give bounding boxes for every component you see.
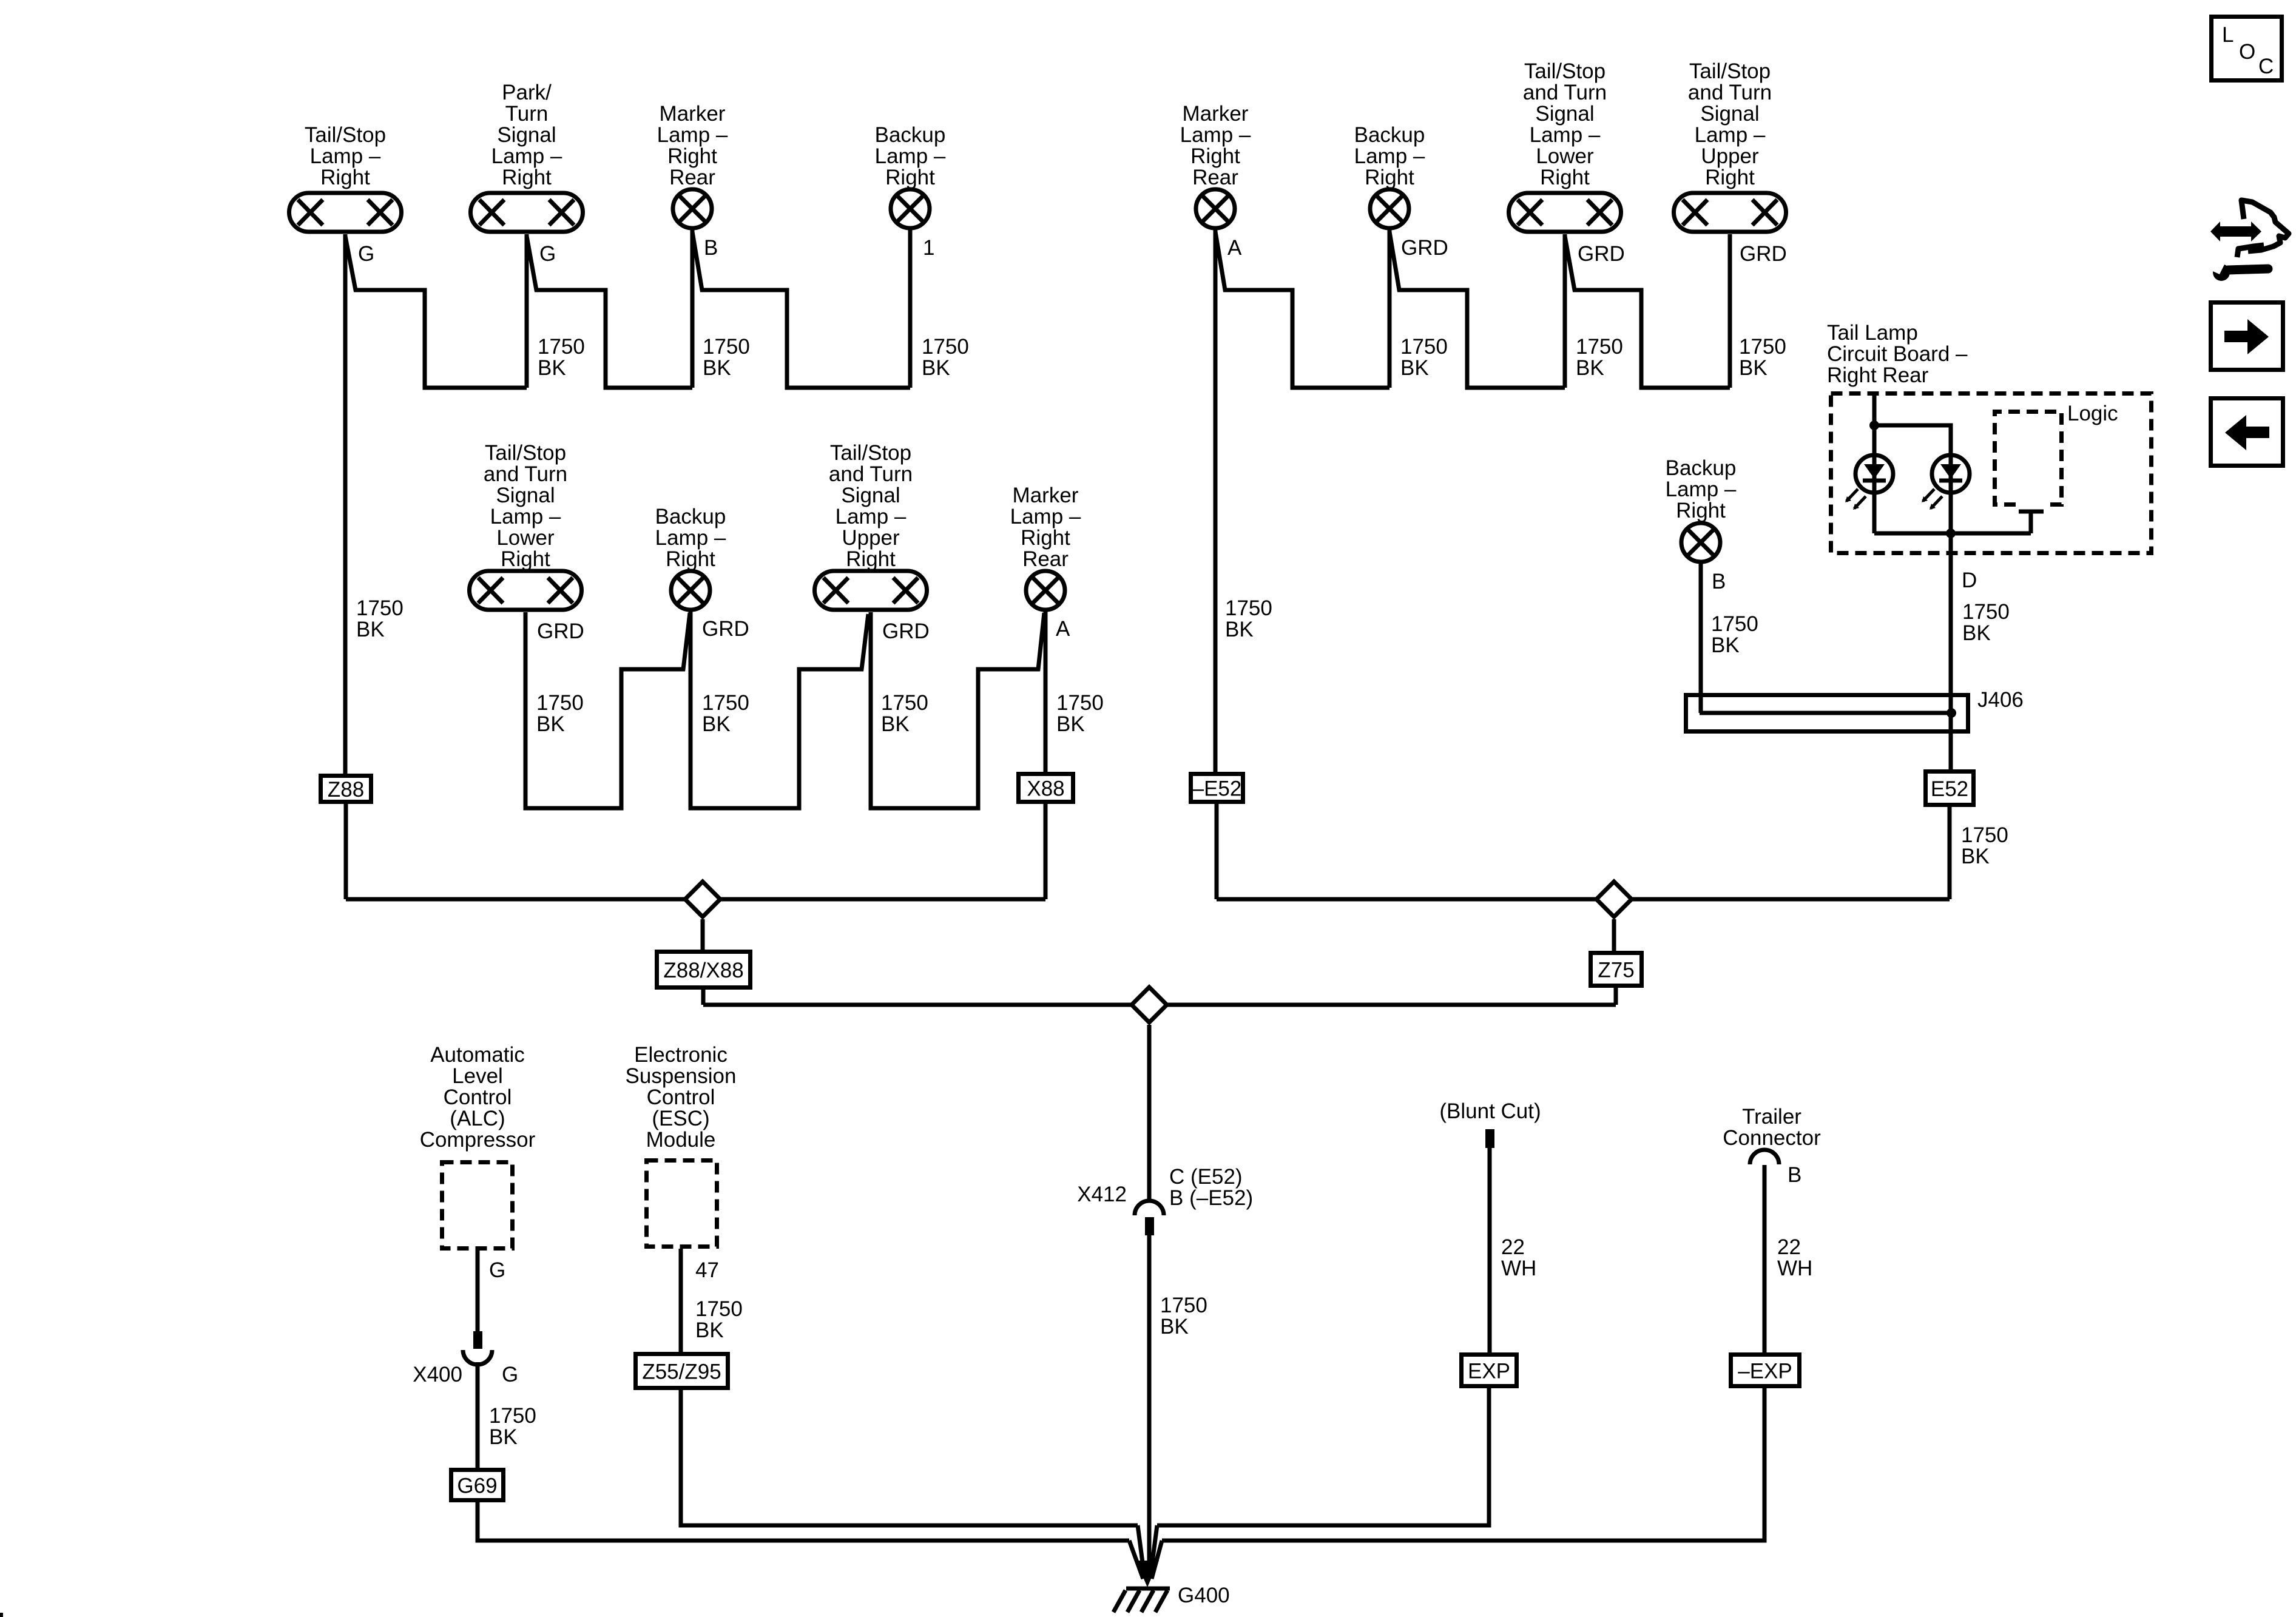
svg-text:BK: BK	[1739, 356, 1768, 380]
wire: feed into circuit board down to LED bus	[1872, 391, 1877, 533]
splice diamond on common bus	[1132, 987, 1167, 1022]
svg-text:1750: 1750	[1225, 596, 1272, 620]
svg-text:BK: BK	[1961, 845, 1990, 868]
wire: -E52 down to right bus	[1215, 804, 1219, 899]
wire: Marker lamp pin B vertical	[690, 230, 695, 388]
wire: bus -E52 to E52	[1217, 897, 1950, 902]
svg-text:1750: 1750	[489, 1404, 536, 1428]
blunt cut terminal	[1485, 1129, 1494, 1148]
svg-text:1750: 1750	[1056, 691, 1104, 715]
svg-text:D: D	[1962, 569, 1977, 592]
svg-text:O: O	[2239, 40, 2255, 64]
svg-text:X412: X412	[1077, 1183, 1127, 1206]
svg-text:1750: 1750	[1962, 600, 2010, 624]
svg-text:L: L	[2222, 23, 2234, 47]
svg-text:C (E52): C (E52)	[1169, 1165, 1243, 1189]
svg-text:BK: BK	[1225, 618, 1254, 641]
wire: branch from Marker lamp to Backup lamp wire	[692, 232, 910, 388]
wire: Z75 down to common bus	[1614, 988, 1618, 1005]
wire: branch from Marker lamp to Backup lamp wire (right group)	[1215, 232, 1389, 388]
svg-text:BK: BK	[1056, 712, 1085, 736]
wire: Backup lamp GRD vertical	[1388, 230, 1392, 388]
svg-text:BK: BK	[881, 712, 910, 736]
svg-text:1750: 1750	[536, 691, 584, 715]
svg-text:BK: BK	[538, 356, 566, 380]
svg-text:1750: 1750	[356, 596, 403, 620]
icon: harness repair (double arrow, outline, wrench)	[2209, 200, 2289, 281]
svg-text:B: B	[1788, 1163, 1801, 1187]
connector Z88/X88	[657, 952, 751, 988]
svg-text:1750: 1750	[881, 691, 928, 715]
svg-text:1750: 1750	[1961, 823, 2008, 847]
svg-text:Z75: Z75	[1598, 959, 1634, 982]
svg-text:E52: E52	[1931, 777, 1968, 801]
wire: converging ground leads	[1129, 1525, 1162, 1579]
wire: stub from cathode bus up to Logic block	[2019, 511, 2044, 533]
wire: Backup lamp pin 1 vertical	[908, 230, 913, 388]
splice diamond above Z88/X88	[685, 882, 720, 917]
svg-text:1: 1	[923, 236, 934, 260]
lamp: Backup Lamp - Right (bulb, right group top)	[1354, 123, 1425, 228]
svg-text:GRD: GRD	[702, 617, 749, 641]
wire: Marker lamp pin A down to X88	[1044, 612, 1048, 772]
svg-text:BK: BK	[922, 356, 950, 380]
svg-text:Z88: Z88	[328, 778, 364, 802]
svg-text:1750: 1750	[1711, 612, 1758, 636]
connector -E52	[1191, 774, 1243, 802]
svg-text:BK: BK	[1160, 1315, 1189, 1338]
svg-text:1750: 1750	[1739, 335, 1786, 359]
wire: splice down to X412	[1147, 1025, 1152, 1203]
wire: Upper Right lamp GRD vertical	[1728, 234, 1732, 388]
connector Z75	[1591, 953, 1642, 986]
lamp: Park/Turn Signal Lamp - Right (dual filament)	[471, 81, 583, 232]
svg-text:1750: 1750	[922, 335, 969, 359]
module: Electronic Suspension Control (ESC) Module	[626, 1043, 737, 1247]
svg-text:22: 22	[1777, 1235, 1801, 1259]
svg-text:B (–E52): B (–E52)	[1169, 1186, 1253, 1210]
wire: Backup lamp GRD to Upper Right lamp (zig-zag)	[690, 612, 868, 808]
svg-text:BK: BK	[703, 356, 731, 380]
svg-text:GRD: GRD	[1740, 242, 1787, 266]
wire: X412 down to ground point	[1147, 1235, 1152, 1578]
connector Z88	[321, 776, 371, 802]
wire: -EXP down and left to ground point	[1162, 1388, 1764, 1541]
svg-text:J406: J406	[1977, 688, 2024, 712]
svg-text:GRD: GRD	[1578, 242, 1625, 266]
lamp: Tail/Stop and Turn Signal Lamp - Upper Right (second row, dual filament)	[815, 441, 927, 610]
lamp: Tail/Stop and Turn Signal Lamp - Lower Right (dual filament)	[1509, 59, 1621, 232]
svg-text:BK: BK	[1576, 356, 1604, 380]
svg-text:1750: 1750	[703, 335, 750, 359]
ground symbol G400	[1113, 1588, 1170, 1612]
svg-text:WH: WH	[1501, 1257, 1536, 1280]
svg-text:GRD: GRD	[1401, 236, 1448, 260]
svg-text:22: 22	[1501, 1235, 1525, 1259]
wire: splice down to Z88/X88	[701, 919, 705, 951]
svg-text:BK: BK	[356, 618, 385, 641]
wire: pin D down through J406 to E52	[1949, 533, 1953, 769]
svg-text:B: B	[704, 236, 718, 260]
wire: bus Z88 to X88	[346, 897, 1045, 902]
svg-text:Tail Lamp: Tail Lamp	[1827, 321, 1918, 345]
svg-text:–E52: –E52	[1192, 777, 1242, 801]
wire: Z88/X88 down to common bus	[701, 990, 706, 1005]
svg-text:1750: 1750	[1576, 335, 1623, 359]
svg-text:Z88/X88: Z88/X88	[663, 959, 743, 982]
wire: Upper Right lamp GRD to Marker lamp (zig-zag)	[871, 612, 1044, 808]
wire: Z88 down to ground bus	[344, 804, 348, 899]
svg-text:WH: WH	[1777, 1257, 1812, 1280]
icon: forward arrow box	[2211, 303, 2283, 370]
wire: X88 down to ground bus	[1044, 804, 1048, 899]
LED 1 (tail lamp circuit board)	[1845, 455, 1893, 510]
wire: Lower Right lamp GRD vertical	[1563, 234, 1567, 388]
svg-text:Circuit Board –: Circuit Board –	[1827, 342, 1968, 366]
svg-text:1750: 1750	[702, 691, 749, 715]
svg-text:1750: 1750	[1160, 1294, 1207, 1317]
wire: X400 down to G69	[476, 1362, 480, 1468]
svg-text:GRD: GRD	[882, 619, 930, 643]
icon: LOC box	[2212, 17, 2282, 81]
ground arrowhead	[1136, 1561, 1159, 1587]
svg-text:G: G	[358, 242, 374, 266]
svg-text:A: A	[1056, 617, 1070, 641]
svg-text:G: G	[489, 1258, 505, 1282]
svg-text:Logic: Logic	[2067, 402, 2118, 425]
wire: Marker lamp pin A down to -E52	[1214, 230, 1218, 772]
lamp: Tail/Stop and Turn Signal Lamp - Lower Right (second row, dual filament)	[470, 441, 582, 610]
module box: Tail Lamp Circuit Board (dashed)	[1831, 394, 2152, 553]
svg-text:A: A	[1227, 236, 1242, 260]
lamp: Marker Lamp - Right Rear (second row, bulb)	[1010, 484, 1081, 610]
wire: branch to second LED	[1874, 425, 1951, 533]
wire: splice branch from Tail/Stop lamp to Park/Turn lamp wire	[345, 236, 527, 388]
wire: common bus Z88/X88 to Z75	[703, 1003, 1616, 1007]
svg-text:G: G	[539, 242, 556, 266]
svg-text:X88: X88	[1027, 777, 1064, 801]
svg-text:–EXP: –EXP	[1738, 1360, 1792, 1383]
svg-text:Right Rear: Right Rear	[1827, 363, 1929, 387]
wire: LED cathode bus	[1874, 532, 2031, 536]
svg-text:BK: BK	[536, 712, 565, 736]
svg-text:(Blunt Cut): (Blunt Cut)	[1439, 1099, 1541, 1123]
svg-text:G69: G69	[457, 1474, 497, 1498]
in-line connector X412 (female/male)	[1135, 1201, 1164, 1235]
junction node on cathode bus	[1946, 528, 1956, 538]
LED 2 (tail lamp circuit board)	[1922, 455, 1970, 510]
wire: EXP down and left to ground point	[1157, 1388, 1489, 1525]
lamp: Backup Lamp - Right (bulb)	[875, 123, 946, 228]
wire: Park/Turn lamp pin G vertical	[525, 234, 529, 388]
wire: branch from Backup lamp to Tail/Stop Lower Right wire	[1389, 232, 1565, 388]
connector EXP	[1462, 1355, 1517, 1386]
wire: trailer connector down to -EXP	[1763, 1165, 1767, 1352]
svg-text:EXP: EXP	[1468, 1360, 1510, 1383]
icon: back arrow box	[2211, 399, 2283, 466]
svg-text:G400: G400	[1178, 1584, 1230, 1607]
wire: Tail/Stop Lamp - Right pin G down to Z88	[343, 234, 348, 774]
svg-text:BK: BK	[489, 1425, 518, 1449]
connector G69	[451, 1470, 504, 1501]
lamp: Tail/Stop Lamp - Right (dual filament)	[289, 123, 402, 232]
connector Z55/Z95	[636, 1354, 728, 1388]
svg-text:GRD: GRD	[537, 619, 584, 643]
svg-text:B: B	[1712, 570, 1726, 593]
svg-text:BK: BK	[702, 712, 731, 736]
junction node on LED feed	[1869, 420, 1879, 430]
lamp: Backup Lamp - Right (second row, bulb)	[655, 505, 726, 610]
wire: E52 down to right bus	[1948, 807, 1952, 899]
in-line connector J406	[1686, 695, 1968, 732]
wire: Backup lamp pin B down into J406	[1699, 564, 1703, 713]
svg-text:1750: 1750	[538, 335, 585, 359]
svg-text:BK: BK	[1400, 356, 1429, 380]
svg-text:G: G	[502, 1363, 518, 1386]
connector X88	[1019, 774, 1073, 802]
svg-text:C: C	[2258, 55, 2274, 78]
wire: ALC compressor pin G down to X400	[476, 1251, 480, 1331]
svg-text:BK: BK	[695, 1318, 724, 1342]
svg-text:BK: BK	[1711, 633, 1740, 657]
svg-text:Z55/Z95: Z55/Z95	[642, 1360, 721, 1384]
wire: ESC pin 47 down to Z55/Z95	[679, 1249, 683, 1352]
page mark bottom-left	[0, 1613, 3, 1617]
module: Automatic Level Control (ALC) Compressor	[420, 1043, 536, 1249]
svg-text:1750: 1750	[695, 1297, 743, 1321]
wire: blunt cut down to EXP	[1488, 1148, 1492, 1352]
svg-text:47: 47	[695, 1258, 719, 1282]
connector -EXP	[1731, 1355, 1800, 1386]
lamp: Marker Lamp - Right Rear (bulb, right group)	[1180, 102, 1251, 228]
wire: branch from Lower Right lamp to Upper Right lamp wire	[1565, 236, 1730, 388]
wire: Lower Right lamp GRD to Backup lamp (zig-zag)	[525, 612, 690, 808]
in-line connector X400 (male/female)	[463, 1331, 492, 1365]
splice diamond above Z75	[1596, 882, 1632, 917]
lamp: Tail/Stop and Turn Signal Lamp - Upper Right (dual filament)	[1674, 59, 1786, 232]
wire: G69 down and right to ground point	[478, 1502, 1129, 1541]
lamp: Backup Lamp - Right (near circuit board, bulb)	[1666, 456, 1737, 562]
svg-text:BK: BK	[1962, 621, 1991, 645]
wire: Z55/Z95 down and right to ground point	[681, 1390, 1138, 1525]
junction node inside J406	[1947, 708, 1956, 718]
svg-text:X400: X400	[413, 1363, 462, 1386]
trailer connector terminal (half circle)	[1750, 1150, 1779, 1164]
svg-text:1750: 1750	[1400, 335, 1448, 359]
logic block (dashed)	[1995, 412, 2062, 505]
wire: splice down to Z75	[1612, 919, 1616, 951]
connector E52	[1926, 772, 1974, 805]
wire: branch from Park/Turn lamp to Marker lamp wire	[527, 236, 692, 388]
lamp: Marker Lamp - Right Rear (bulb)	[657, 102, 728, 228]
